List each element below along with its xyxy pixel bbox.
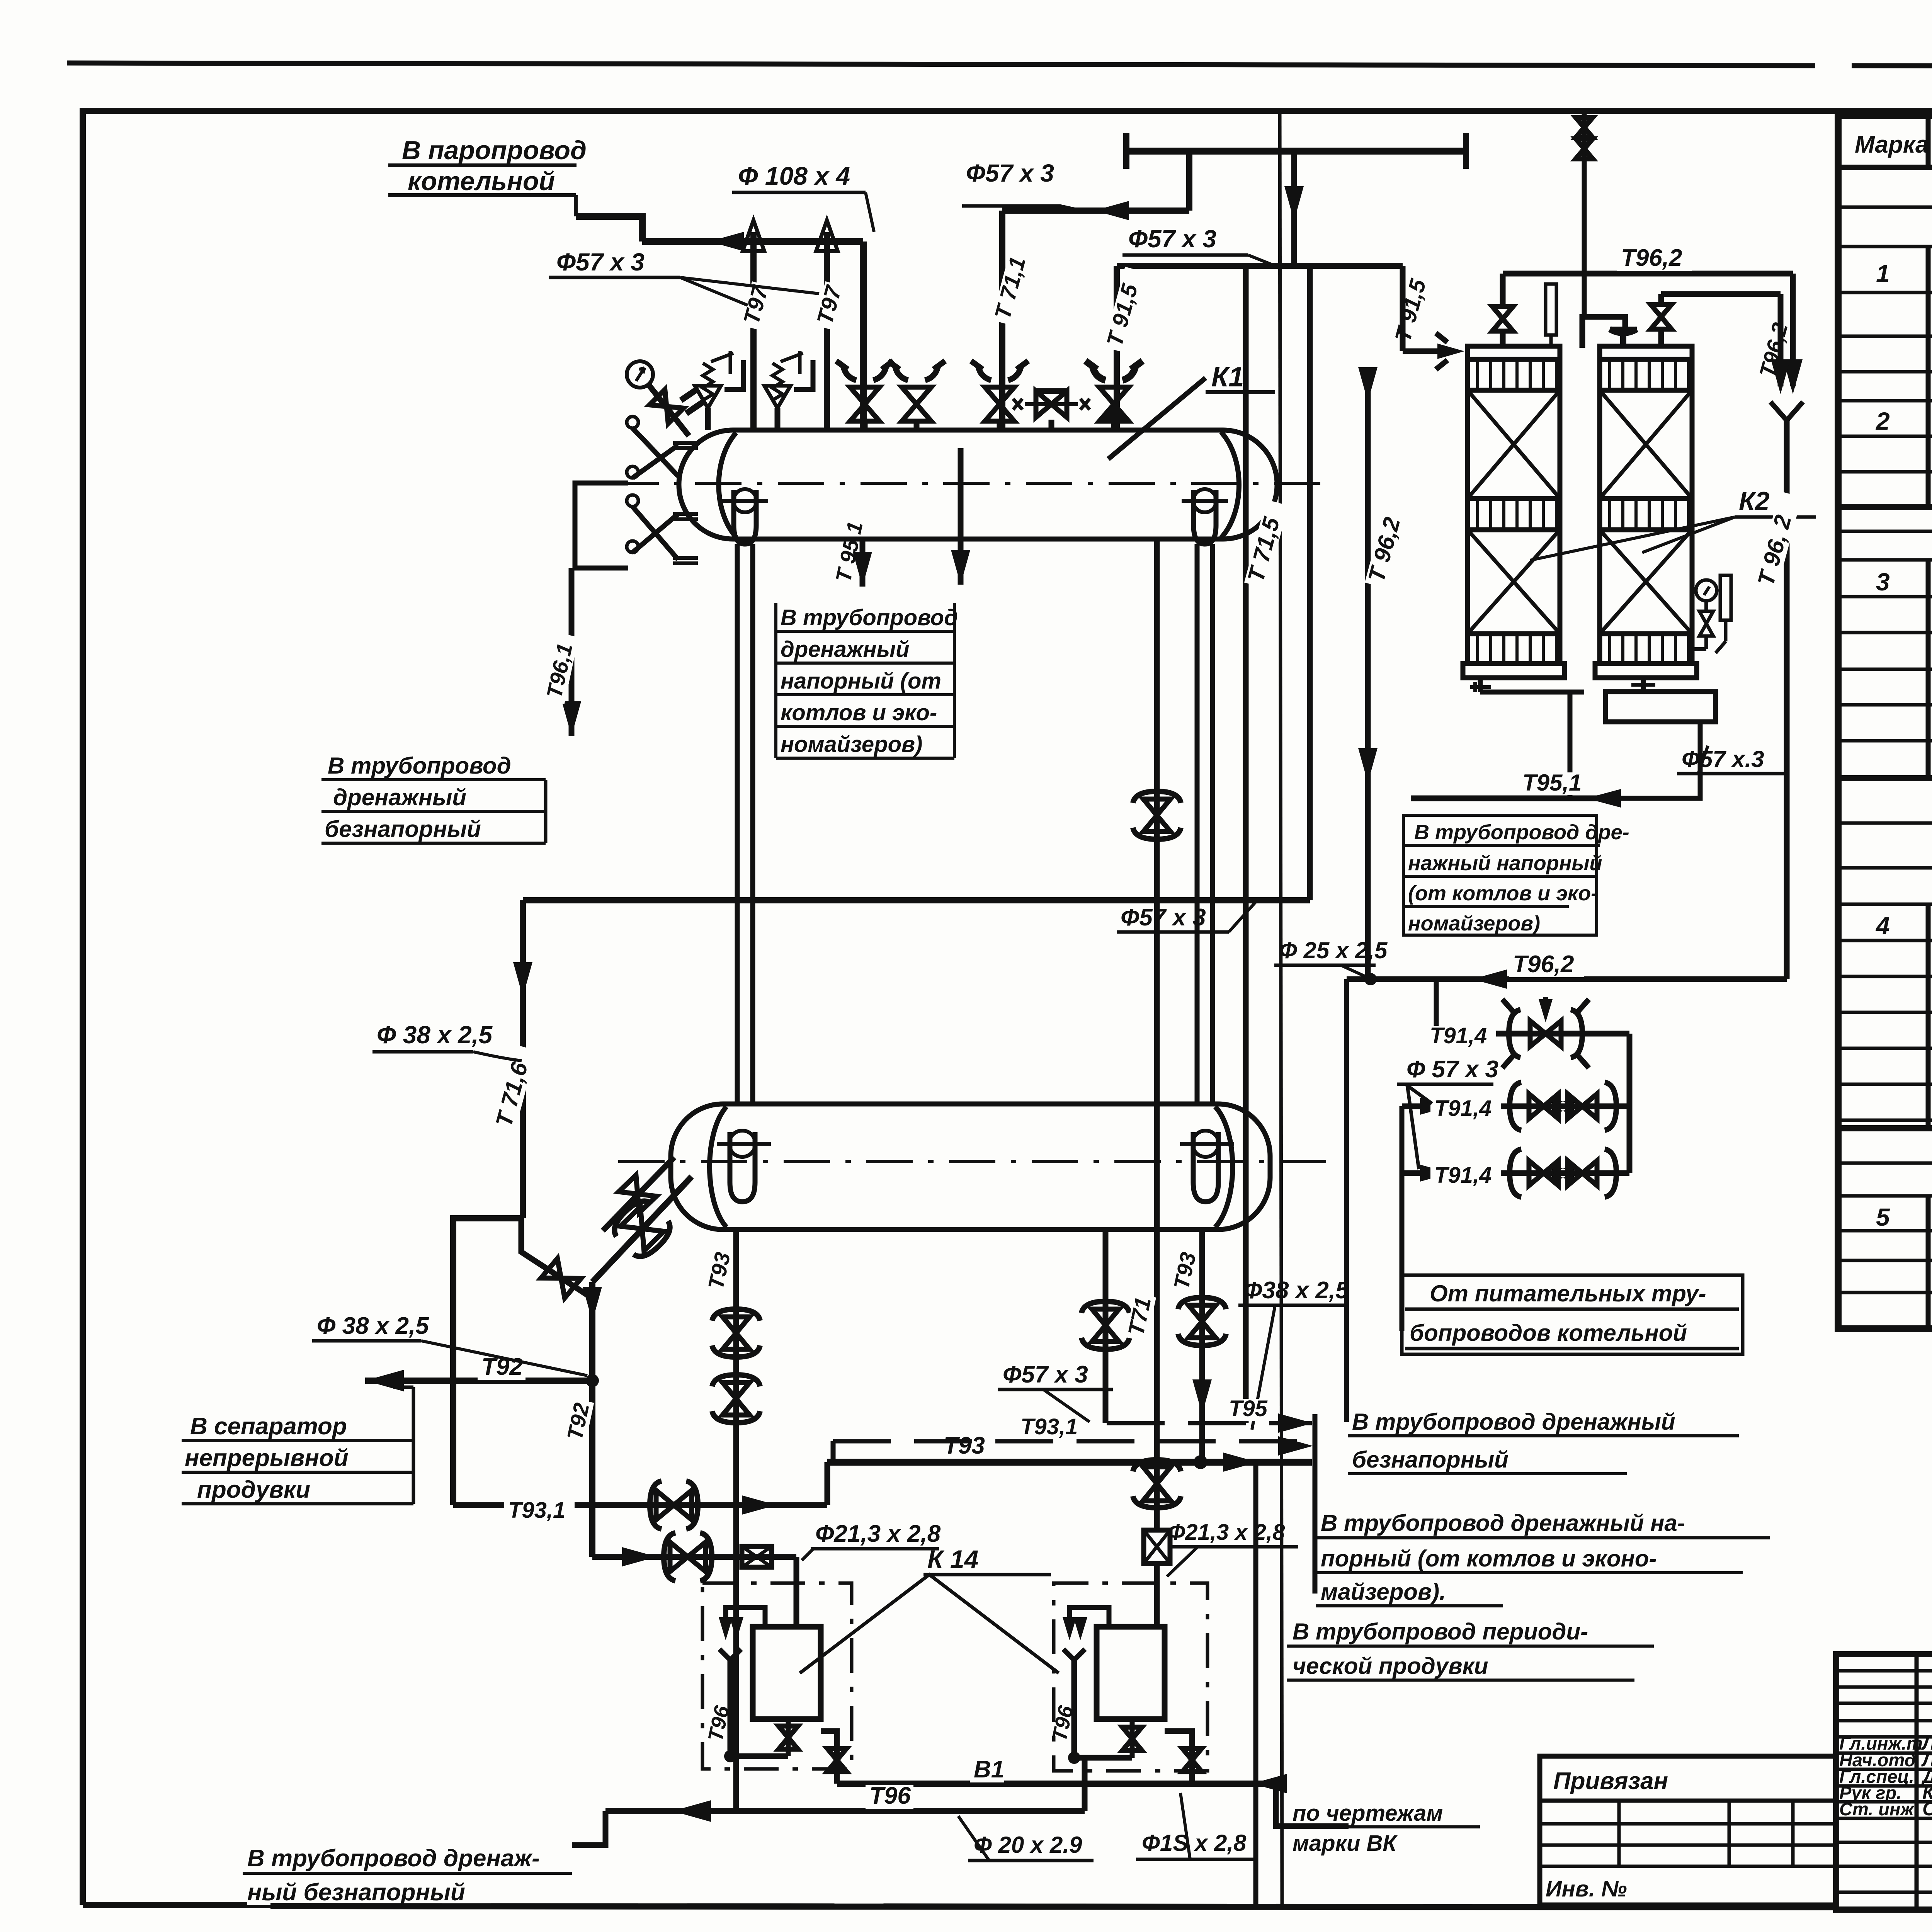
svg-text:В паропровод: В паропровод (402, 136, 587, 165)
svg-text:Т95: Т95 (1229, 1396, 1268, 1421)
upper drum left downcomer pocket (734, 490, 756, 544)
drain T95,1 from drum (860, 539, 866, 587)
upper drum right downcomer pocket (1194, 490, 1216, 544)
tank1 feed loop (726, 1607, 765, 1627)
svg-text:Т93: Т93 (944, 1432, 985, 1459)
svg-text:В трубопровод: В трубопровод (781, 605, 958, 630)
inter-tower duct (1558, 359, 1563, 663)
svg-text:Т91,4: Т91,4 (1434, 1163, 1492, 1188)
svg-text:по чертежам: по чертежам (1293, 1801, 1443, 1826)
drum cap lower nozzle diagonal (603, 1157, 674, 1231)
drum top blow valve T91,5 (1111, 421, 1117, 430)
svg-text:Ф57 х.3: Ф57 х.3 (1682, 746, 1764, 772)
T93,1 riser step (825, 1462, 830, 1505)
lower drum right pocket (1193, 1132, 1218, 1202)
svg-text:Ф57 х 3: Ф57 х 3 (1003, 1361, 1088, 1388)
lower drum centerline (618, 1160, 1329, 1163)
svg-text:номайзеров): номайзеров) (1408, 912, 1540, 935)
thermometer capsule tower2 (1720, 575, 1731, 620)
spec table row lines (1838, 206, 1932, 209)
top trim line left segment (67, 63, 1815, 66)
title block left row lines (1836, 1669, 1932, 1673)
water gauge linkage lower (633, 507, 678, 560)
tower2 top valve (1658, 329, 1664, 346)
svg-text:Ф21,3 х 2,8: Ф21,3 х 2,8 (1168, 1520, 1285, 1545)
label T96 (866, 1785, 913, 1809)
svg-text:В1: В1 (974, 1756, 1004, 1783)
svg-text:2: 2 (1876, 407, 1890, 435)
label T96,2 right lower (1754, 491, 1802, 592)
tank1 bottom valve (786, 1719, 791, 1756)
svg-text:Ст. инж: Ст. инж (1839, 1799, 1915, 1819)
svg-text:Ф57 х 3: Ф57 х 3 (966, 159, 1054, 187)
label T71,5 (1244, 500, 1288, 588)
label T71,1 (992, 240, 1034, 325)
T92 horizontal to separator (365, 1378, 592, 1384)
branch3 valve (1510, 1149, 1616, 1197)
bracket паропровод (574, 195, 578, 216)
economizer tower 1 base (1463, 663, 1565, 678)
T96,2 return horizontal (1347, 976, 1787, 982)
svg-text:непрерывной: непрерывной (185, 1445, 349, 1471)
svg-text:продувки: продувки (197, 1476, 310, 1503)
spec table outer box (1838, 116, 1932, 1329)
left lower drum drain riser T93 (733, 1230, 739, 1811)
svg-text:Т91,4: Т91,4 (1434, 1096, 1492, 1121)
svg-text:Т96,2: Т96,2 (1621, 245, 1682, 271)
svg-text:Ф 57 х 3: Ф 57 х 3 (1406, 1056, 1498, 1083)
blowdown line T71,5 to economizer level (1114, 266, 1120, 430)
pressure gauge on drum (627, 361, 653, 388)
top trim line right segment (1852, 66, 1932, 68)
svg-text:Ф 25 х 2,5: Ф 25 х 2,5 (1279, 937, 1388, 963)
svg-text:Ф 38 х 2,5: Ф 38 х 2,5 (377, 1021, 493, 1049)
K14 tank 1 (753, 1627, 821, 1719)
svg-text:безнапорный: безнапорный (325, 816, 481, 842)
T91,4 branch 2 (1402, 1104, 1629, 1109)
orifice fitting on T71 (1144, 1530, 1170, 1563)
funnel on tower2 (1610, 329, 1637, 346)
K14 tank 2 (1097, 1627, 1165, 1719)
svg-text:дренажный: дренажный (333, 784, 466, 810)
flow washer tower1 (1470, 682, 1491, 692)
tank2 bottom valve (1130, 1719, 1135, 1758)
continuous blowdown diagonal from lower drum (592, 1177, 692, 1282)
long drop line right of drums (1253, 1462, 1259, 1905)
label T95 (1225, 1399, 1270, 1421)
steam line Ф108х4 from drum (860, 241, 867, 430)
pipe T71,6 down (520, 900, 526, 1218)
gauge cock with handle (648, 384, 689, 436)
svg-text:котлов и эко-: котлов и эко- (781, 700, 937, 725)
drum top gate valve 1 (862, 421, 868, 430)
gauge on tower2 (1696, 580, 1717, 601)
bracket сепаратор (412, 1387, 415, 1504)
valve on T71 lower (1143, 1467, 1171, 1501)
branch2 valve (1510, 1082, 1616, 1130)
label T71 drop (1125, 1293, 1156, 1342)
label T92 vertical (564, 1398, 594, 1446)
label T95,1 economizers (1519, 772, 1591, 795)
economizer tower 2 (1600, 346, 1692, 359)
frame bottom line (83, 1902, 247, 1908)
svg-text:порный (от котлов и эконо-: порный (от котлов и эконо- (1321, 1546, 1656, 1571)
label T93 header (940, 1435, 988, 1459)
svg-text:Ф57 х 3: Ф57 х 3 (1121, 904, 1206, 931)
fold crossing arrows bracket (1313, 1414, 1318, 1594)
svg-text:(от котлов и эко-: (от котлов и эко- (1408, 882, 1598, 905)
svg-text:Т93,1: Т93,1 (508, 1498, 565, 1523)
B1 jog to right (1276, 1784, 1349, 1826)
tower2 top run (1661, 291, 1781, 297)
tank1 right valve (821, 1731, 837, 1784)
svg-text:5: 5 (1876, 1203, 1890, 1231)
sheet fold line (1280, 111, 1282, 1905)
label T97 no2 (814, 281, 847, 331)
lower drum left pocket (730, 1132, 755, 1202)
T71,5 long drop (1243, 266, 1249, 1423)
T91,4 feed drop (1434, 979, 1439, 1034)
drum top gate valve 2 (914, 421, 920, 430)
label T93,1 right (1017, 1417, 1087, 1439)
T92 vertical with arrow (583, 1287, 602, 1321)
svg-text:бопроводов котельной: бопроводов котельной (1410, 1320, 1687, 1346)
economizer tower 1 (1468, 346, 1560, 359)
svg-text:ческой продувки: ческой продувки (1293, 1653, 1488, 1679)
T91,5 drop to economizer (1400, 266, 1406, 351)
tower2 bottom box (1605, 692, 1716, 722)
own-needs header tee down T71,5 (1291, 151, 1297, 266)
label T96,2 left (1365, 500, 1409, 588)
svg-text:4: 4 (1875, 912, 1890, 940)
svg-text:дренажный: дренажный (781, 637, 910, 662)
tank2 right valve (1165, 1731, 1192, 1784)
label T93,1 left (504, 1500, 575, 1522)
riser T97 no2 (824, 232, 830, 430)
drain line no2 from drum (958, 448, 964, 585)
drum top gate valve 3 (997, 421, 1003, 430)
svg-text:Ф 108 х 4: Ф 108 х 4 (738, 162, 850, 190)
branch collector vertical (1627, 1034, 1633, 1173)
svg-text:От питательных тру-: От питательных тру- (1430, 1281, 1706, 1306)
T71,6 to left bracket pipe (453, 1218, 523, 1505)
title block outer box (1836, 1654, 1932, 1910)
svg-text:ный безнапорный: ный безнапорный (247, 1879, 465, 1906)
upper drum centerline (612, 482, 1329, 485)
safety valve 2 (775, 408, 781, 430)
main steam pipe T71 drop (1154, 539, 1160, 1530)
second diagonal valve run (521, 1218, 592, 1298)
blowoff header T96 (605, 1808, 1085, 1814)
svg-text:котельной: котельной (408, 167, 555, 196)
T92 feed to K14 no1 (592, 1554, 796, 1560)
label T71,6 (492, 1044, 536, 1133)
T96,2 loop down (1790, 274, 1796, 386)
T93,1 left run (453, 1502, 827, 1508)
tank2 feed loop (1070, 1607, 1109, 1627)
steam line T71,1 (999, 211, 1005, 430)
svg-text:Ф21,3 х 2,8: Ф21,3 х 2,8 (815, 1520, 941, 1547)
blow line T96,2 drop (1365, 367, 1371, 979)
svg-text:В трубопровод дренажный на-: В трубопровод дренажный на- (1321, 1510, 1685, 1536)
label T91,5 riser (1104, 267, 1146, 352)
svg-text:Марка: Марка (1855, 131, 1929, 158)
svg-text:В трубопровод дренаж-: В трубопровод дренаж- (247, 1845, 540, 1872)
drain header B1 (837, 1781, 1276, 1787)
boiler lower drum (671, 1104, 1270, 1230)
boiler upper drum K1 (679, 430, 1277, 539)
water gauge circles (627, 417, 638, 428)
svg-text:Т95,1: Т95,1 (1522, 770, 1582, 796)
blowdown header T93 (827, 1459, 1312, 1466)
label T91,4 no2 (1430, 1099, 1501, 1121)
safety valve 1 (705, 408, 711, 430)
svg-text:безнапорный: безнапорный (1352, 1447, 1509, 1473)
svg-text:Инв. №: Инв. № (1546, 1876, 1627, 1901)
svg-text:майзеров).: майзеров). (1321, 1579, 1446, 1605)
lower drum left drain to T95 (1103, 1230, 1109, 1423)
drum nozzle ticks (673, 443, 698, 563)
svg-text:Ф 38 х 2,5: Ф 38 х 2,5 (317, 1313, 429, 1339)
T96 step to text (572, 1811, 605, 1845)
привязан stamp box (1540, 1756, 1836, 1905)
valve on T71 above lower drum (1143, 799, 1170, 832)
riser T97 no1 (750, 232, 757, 430)
svg-text:номайзеров): номайзеров) (781, 732, 922, 757)
lower drum right drain T93 (1199, 1230, 1205, 1462)
svg-text:К2: К2 (1739, 486, 1770, 516)
label B1 (970, 1759, 1004, 1782)
svg-text:напорный (от: напорный (от (781, 668, 941, 694)
svg-text:Т93,1: Т93,1 (1020, 1414, 1078, 1439)
svg-text:В трубопровод: В трубопровод (328, 753, 511, 779)
svg-text:Т91,4: Т91,4 (1430, 1023, 1487, 1048)
K14 leader lines (800, 1575, 1059, 1673)
thermometer on tower1 (1546, 284, 1556, 335)
spec table column lines (1926, 116, 1931, 167)
T91,4 branch 1 (1436, 1031, 1629, 1037)
T95 dashed run (1107, 1421, 1312, 1425)
svg-text:Ф57 х 3: Ф57 х 3 (1128, 225, 1216, 253)
svg-text:В сепаратор: В сепаратор (190, 1413, 347, 1440)
svg-text:1: 1 (1876, 260, 1890, 287)
drain line T95,1 economizers (1411, 796, 1604, 801)
branch 2-3 left vertical (1400, 1106, 1405, 1331)
T93,1 dashed right run (833, 1439, 1312, 1444)
tower1 top valve T96,2 (1500, 331, 1506, 346)
drain T96,1 (569, 568, 575, 736)
svg-text:3: 3 (1876, 568, 1890, 596)
own-needs steam header (1126, 148, 1466, 155)
K1 designation leader (1108, 378, 1206, 459)
svg-text:Ф1S х 2,8: Ф1S х 2,8 (1142, 1830, 1247, 1856)
economizer tower 2 base (1595, 663, 1697, 678)
svg-text:нажный напорный: нажный напорный (1408, 852, 1602, 875)
label T97 no1 (740, 281, 773, 331)
K14 boundary box 2 (1054, 1583, 1207, 1771)
label T96,1 (544, 633, 579, 704)
T91,4 branch 3 (1402, 1170, 1629, 1176)
label T92 (478, 1356, 526, 1380)
svg-text:Смирнова: Смирнова (1922, 1798, 1932, 1820)
T96,2 drop at fold (1344, 979, 1349, 1422)
svg-text:Т96,2: Т96,2 (1513, 951, 1574, 978)
label T91,4 no1 (1426, 1026, 1496, 1048)
long horizontal obduvka pipe (523, 897, 1310, 903)
obduvka pipe down right of fold (1307, 266, 1313, 900)
feed line from top frame (1582, 111, 1587, 317)
svg-text:Т96: Т96 (869, 1782, 911, 1809)
svg-text:Ф57 х 3: Ф57 х 3 (556, 248, 645, 276)
label T91,4 no3 (1430, 1165, 1501, 1187)
svg-text:В трубопровод дренажный: В трубопровод дренажный (1352, 1409, 1675, 1435)
tower2 drain drop (1604, 722, 1700, 798)
spec table header row line (1838, 165, 1932, 170)
left downcomer pipes (735, 544, 740, 1104)
gauge assembly pipe (575, 483, 628, 568)
svg-text:марки ВК: марки ВК (1293, 1831, 1398, 1856)
svg-text:В трубопровод периоди-: В трубопровод периоди- (1293, 1619, 1588, 1645)
T92 junction dot (586, 1374, 599, 1387)
label T96,2 return (1509, 954, 1584, 977)
water gauge linkage upper (633, 428, 678, 478)
svg-text:К1: К1 (1211, 362, 1244, 393)
T96,2 top run (1503, 271, 1793, 277)
title block signature column lines (1915, 1654, 1919, 1910)
economizer drain collector (1478, 678, 1483, 692)
label T96,2 top (1617, 247, 1692, 271)
svg-text:Ф38 х 2,5: Ф38 х 2,5 (1243, 1277, 1349, 1304)
K14 boundary box 1 (702, 1583, 852, 1769)
svg-text:Привязан: Привязан (1553, 1768, 1668, 1794)
drum top control valve (1049, 420, 1054, 430)
inter tower jumper pipe (1582, 317, 1625, 348)
svg-text:Ф 20 х 2.9: Ф 20 х 2.9 (974, 1832, 1082, 1858)
branch1 valve (1509, 1010, 1582, 1058)
right downcomer pipes (1195, 544, 1200, 1104)
